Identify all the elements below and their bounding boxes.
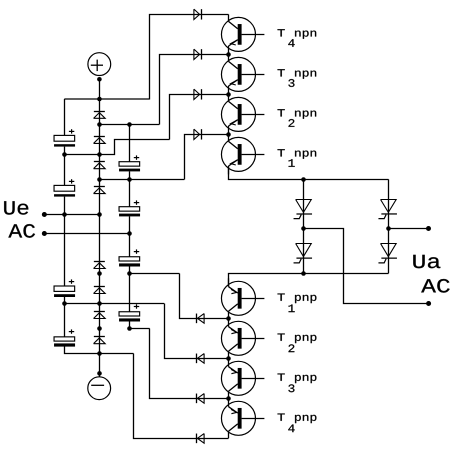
wire Ue node to ladder bbox=[64, 214, 99, 216]
capacitor C6 bbox=[119, 200, 140, 216]
wire riser T2pnp bbox=[165, 304, 229, 359]
node ladder 2 bbox=[97, 152, 102, 157]
schottky diode D19 bbox=[378, 200, 397, 219]
node T3-T4 pnp bbox=[226, 396, 231, 401]
wire schottky column right bbox=[388, 179, 390, 273]
diode D8 bbox=[94, 337, 106, 344]
node bridge left top bbox=[301, 177, 306, 182]
node T1-T2 pnp bbox=[226, 316, 231, 321]
terminal Ue neutral bbox=[42, 231, 130, 236]
diode D7 bbox=[94, 312, 106, 319]
label AC output bbox=[421, 279, 449, 293]
wire tap jog bbox=[65, 140, 170, 155]
diode D14 base T2pnp bbox=[197, 354, 205, 364]
transistor T4 npn bbox=[221, 14, 264, 54]
schottky diode D17 bbox=[294, 200, 313, 219]
wire riser T1npn bbox=[185, 135, 229, 180]
diode D12 base T1npn bbox=[194, 129, 202, 139]
node top rail / diode column bbox=[97, 97, 102, 102]
wire node3 extension bbox=[99, 179, 184, 181]
transistor T2 pnp bbox=[221, 318, 264, 358]
capacitor C3 bbox=[54, 279, 75, 297]
diode D10 base T3npn bbox=[194, 49, 202, 59]
wire C8 tail bbox=[129, 322, 131, 329]
diode D13 base T1pnp bbox=[197, 314, 205, 324]
transistor T1 pnp bbox=[221, 278, 264, 318]
node ladder 7 bbox=[97, 326, 102, 331]
node T4-T3 npn bbox=[226, 52, 231, 57]
wire diode column bbox=[99, 99, 101, 353]
schottky diode D18 bbox=[294, 244, 313, 263]
label Ua bbox=[413, 255, 440, 268]
transistor T3 npn bbox=[221, 54, 264, 94]
node T2-T1 npn bbox=[226, 132, 231, 137]
node ladder 6 bbox=[97, 301, 102, 306]
node Ua+ tap bbox=[386, 226, 391, 231]
label Ue bbox=[4, 201, 28, 214]
node Ua- tap bbox=[301, 226, 306, 231]
wire riser T1pnp bbox=[180, 274, 229, 319]
capacitor C7 bbox=[119, 249, 140, 266]
label T1 pnp bbox=[278, 294, 317, 313]
label T2 pnp bbox=[278, 334, 317, 353]
power - terminal bbox=[88, 371, 111, 400]
label T1 npn bbox=[278, 149, 317, 167]
wire C5 to C6 bbox=[129, 171, 131, 206]
wire riser T3pnp bbox=[150, 329, 229, 399]
label AC input bbox=[8, 224, 35, 238]
node column2 Ue2 bbox=[127, 231, 132, 236]
diode D15 base T3pnp bbox=[197, 394, 205, 404]
wire riser T3npn bbox=[160, 55, 229, 125]
wire npn chain to bridge bbox=[229, 167, 389, 180]
diode D9 base T4npn bbox=[194, 9, 202, 19]
terminal Ua- bbox=[426, 301, 431, 306]
wire Ua- lead bbox=[304, 229, 429, 304]
label T3 npn bbox=[278, 69, 317, 87]
node T2-T3 pnp bbox=[226, 356, 231, 361]
node bridge left bottom bbox=[301, 271, 306, 276]
wire riser T4pnp bbox=[134, 354, 229, 439]
transistor T3 pnp bbox=[221, 358, 264, 398]
node column2 mid2 bbox=[127, 271, 132, 276]
label T4 pnp bbox=[278, 414, 317, 433]
node column2 mid1 bbox=[127, 177, 132, 182]
label T2 npn bbox=[278, 109, 317, 127]
node C1-C2 tap bbox=[62, 152, 67, 157]
wire C1 to C2 bbox=[64, 147, 66, 186]
diode D16 base T4pnp bbox=[197, 434, 205, 444]
capacitor C2 bbox=[54, 179, 75, 196]
node ladder 3 bbox=[97, 177, 102, 182]
wire node7 extension bbox=[129, 328, 149, 330]
node column2 top bbox=[127, 122, 132, 127]
schottky diode D20 bbox=[378, 244, 397, 263]
wire schottky column left bbox=[303, 179, 305, 273]
transistor T1 npn bbox=[221, 134, 264, 174]
power + terminal bbox=[88, 53, 111, 82]
wire pnp chain to bridge bbox=[229, 274, 389, 287]
node ladder 1 bbox=[97, 122, 102, 127]
diode D2 bbox=[94, 137, 106, 144]
wire node1 rail bbox=[99, 124, 159, 126]
wire C7 to C8 bbox=[129, 267, 131, 312]
wire + terminal to rail bbox=[99, 79, 101, 99]
diode D5 bbox=[94, 262, 106, 269]
node bottom rail / diode column bbox=[97, 351, 102, 356]
diode D3 bbox=[94, 162, 106, 169]
capacitor C4 bbox=[54, 329, 75, 346]
node ladder 5 bbox=[97, 271, 102, 276]
diode D1 bbox=[94, 112, 106, 119]
wire C3 to C4 bbox=[64, 297, 66, 337]
transistor T4 pnp bbox=[221, 398, 264, 438]
wire riser T2npn bbox=[170, 95, 229, 140]
capacitor C8 bbox=[119, 304, 140, 321]
label T4 npn bbox=[278, 29, 317, 47]
terminal Ua+ bbox=[426, 226, 431, 231]
wire node5 extension bbox=[129, 273, 179, 275]
wire node6 extension bbox=[64, 303, 164, 305]
node C3-C4 tap bbox=[62, 301, 67, 306]
wire left column middle bbox=[64, 214, 66, 286]
node left column Ue bbox=[62, 212, 67, 217]
node T3-T2 npn bbox=[226, 92, 231, 97]
wire column2 upper bbox=[129, 124, 131, 161]
transistor T2 npn bbox=[221, 94, 264, 134]
label T3 pnp bbox=[278, 374, 317, 393]
capacitor C1 bbox=[54, 129, 75, 146]
wire riser T4npn bbox=[150, 15, 229, 100]
diode D6 bbox=[94, 287, 106, 294]
wire - terminal to rail bbox=[99, 353, 101, 377]
wire Ua+ lead bbox=[388, 228, 428, 230]
wire C6 to C7 bbox=[129, 216, 131, 256]
wire left column upper bbox=[64, 99, 66, 135]
node column2 bottom bbox=[127, 326, 132, 331]
capacitor C5 bbox=[119, 155, 140, 171]
wire C4 to bottom rail bbox=[65, 347, 134, 354]
node ladder Ue bbox=[97, 212, 102, 217]
wire C2 to Ue node bbox=[64, 197, 66, 215]
wire top rail bbox=[64, 98, 149, 100]
terminal Ue phase bbox=[42, 212, 65, 217]
diode D11 base T2npn bbox=[194, 89, 202, 99]
diode D4 bbox=[94, 187, 106, 194]
